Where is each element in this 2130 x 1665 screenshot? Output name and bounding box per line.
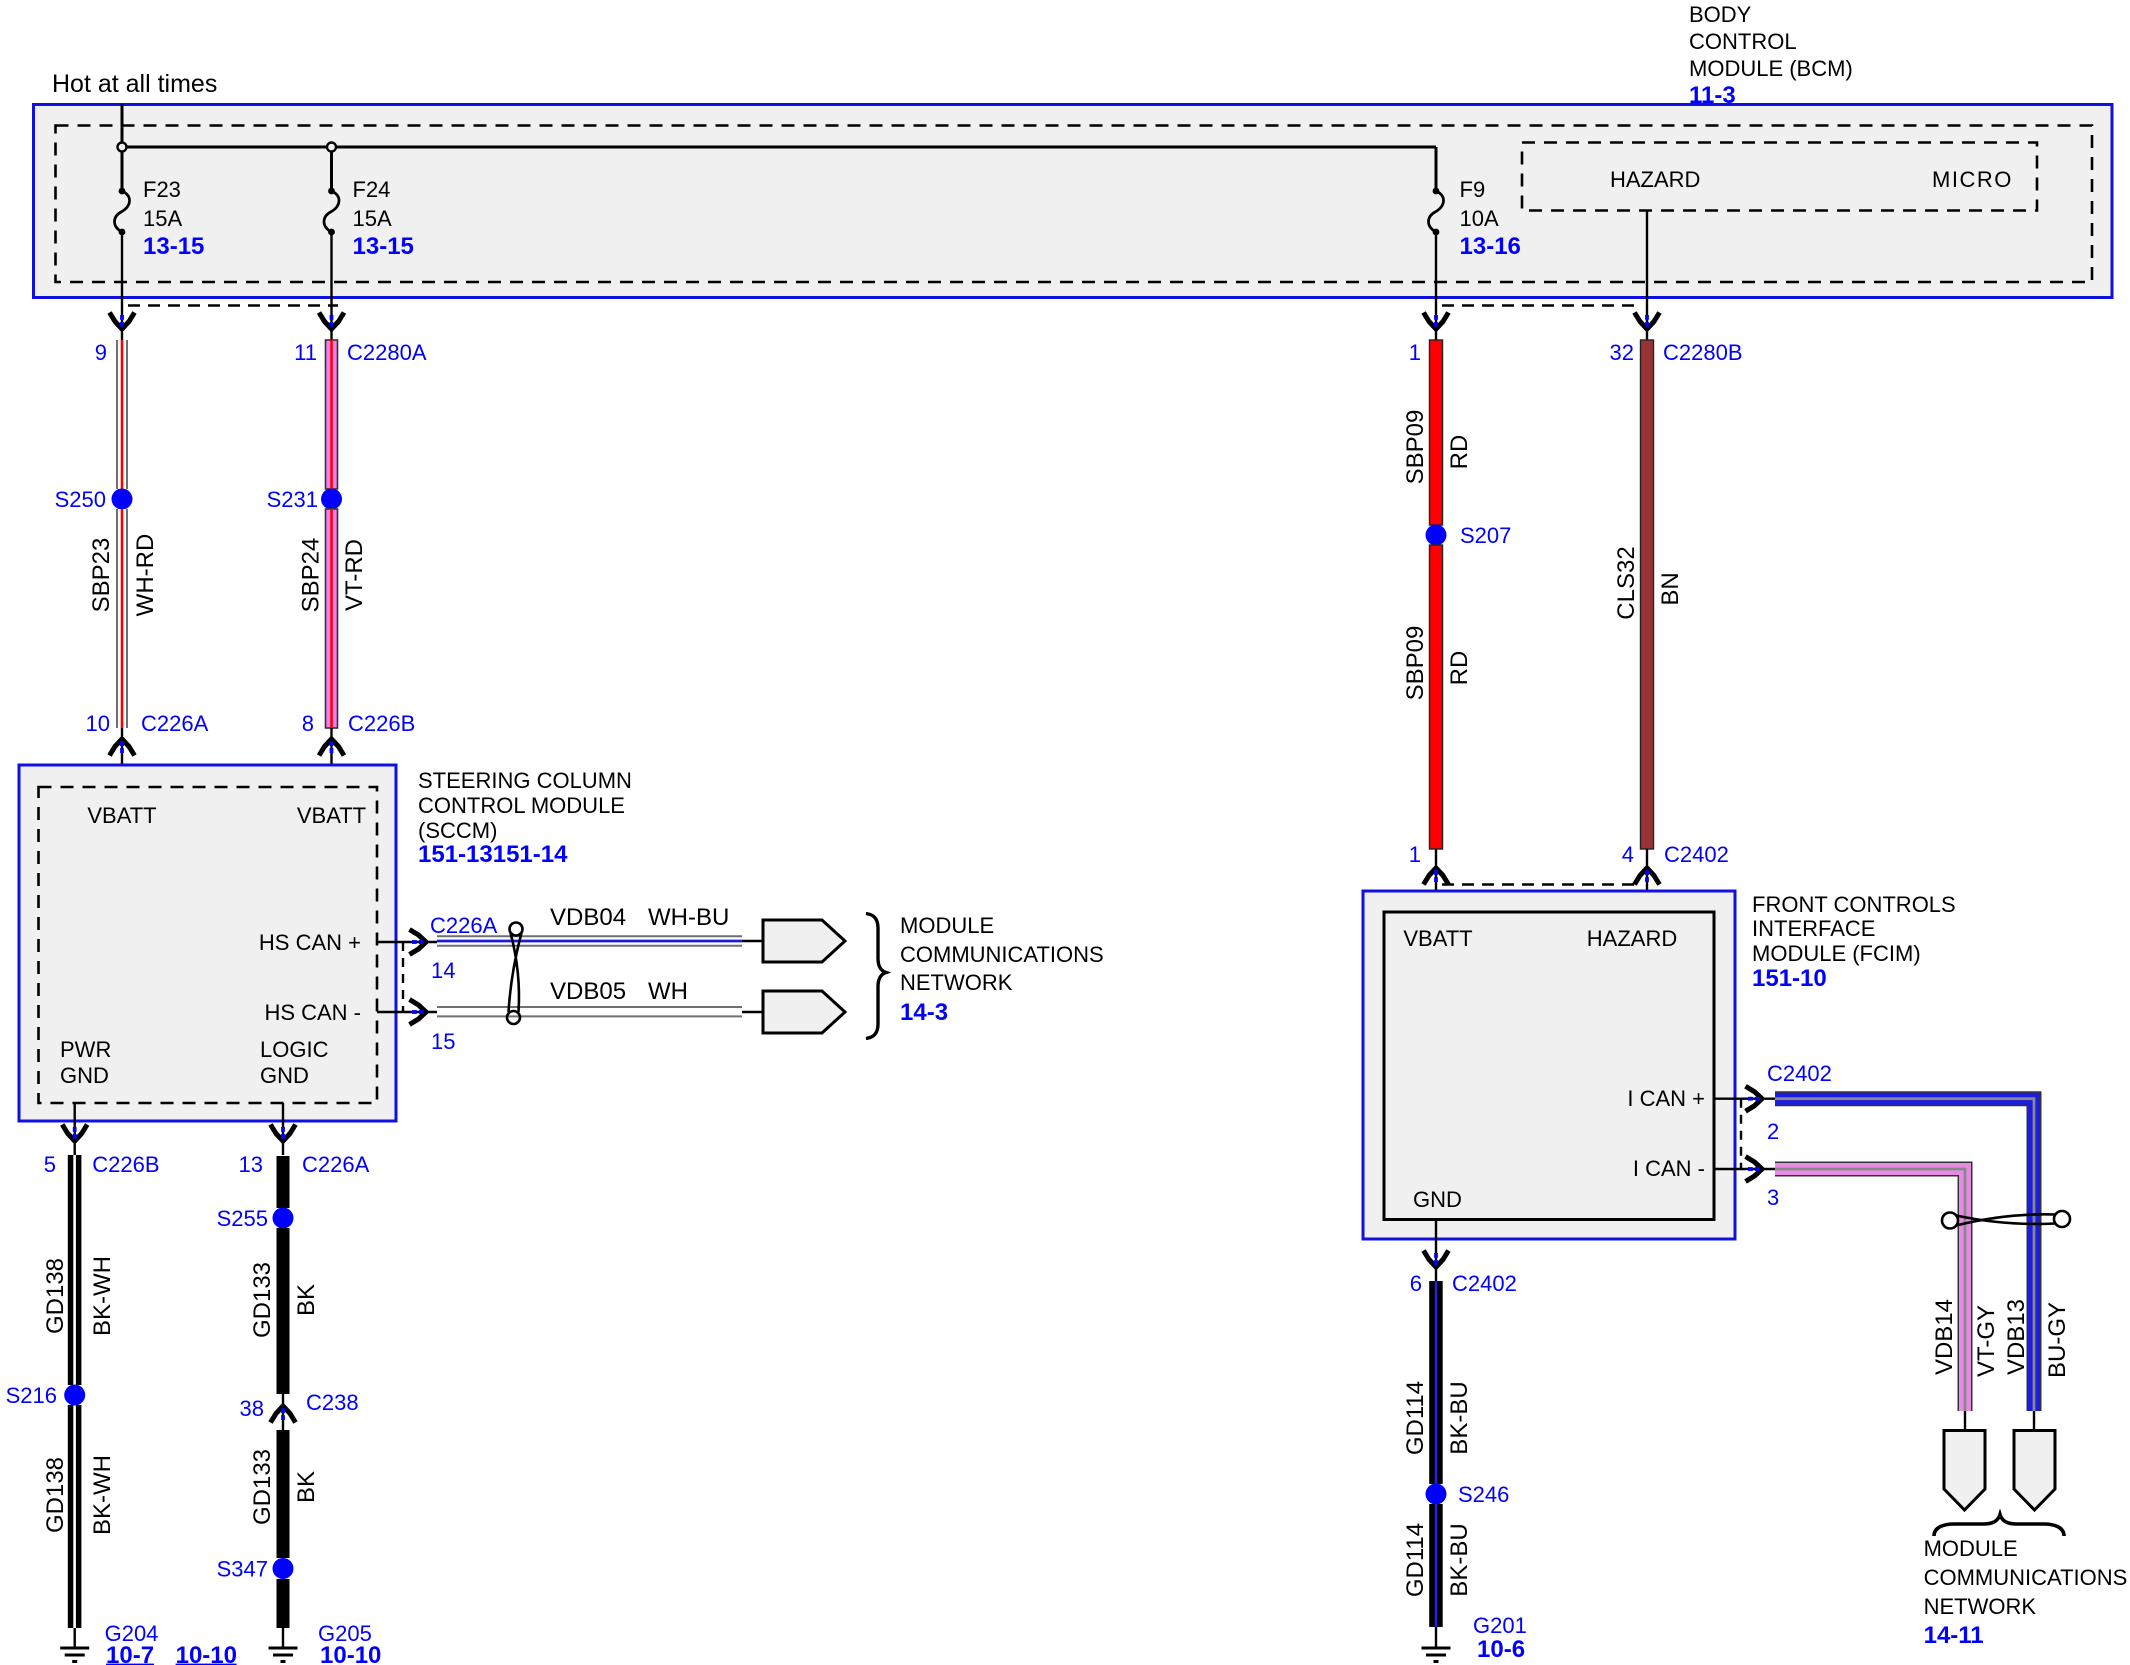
svg-text:14-11: 14-11 — [1924, 1622, 1984, 1649]
svg-text:BK-BU: BK-BU — [1446, 1381, 1473, 1454]
svg-text:CLS32: CLS32 — [1613, 546, 1640, 619]
wire SBP23 WH-RD (lower segment) — [116, 509, 128, 728]
module FCIM (outer box) — [1363, 891, 1735, 1239]
svg-text:BU-GY: BU-GY — [2044, 1302, 2071, 1378]
connector pin arrow (down) at C2280B pin 1 — [1424, 313, 1449, 330]
svg-text:GD114: GD114 — [1402, 1381, 1429, 1455]
connector C2402 dashed link — [1740, 1099, 1742, 1169]
wire into FCIM HAZARD — [1646, 849, 1648, 912]
connector pin arrow (up) at C226B pin 8 — [319, 739, 344, 756]
svg-text:3: 3 — [1767, 1185, 1779, 1210]
BCM internal dashed box (HAZARD / MICRO) — [1522, 143, 2037, 211]
svg-text:INTERFACE: INTERFACE — [1752, 916, 1875, 941]
wire SBP23 WH-RD (upper segment) — [116, 340, 128, 489]
svg-text:S347: S347 — [217, 1557, 268, 1582]
svg-text:BODY: BODY — [1689, 2, 1752, 27]
wire: F9 out of box — [1435, 231, 1437, 340]
splice S246 — [1426, 1484, 1447, 1505]
connector pin arrow (right) at C2402 pin 3 — [1746, 1157, 1763, 1182]
svg-text:15: 15 — [431, 1029, 455, 1054]
wire GD138 BK-WH (upper segment) — [68, 1155, 82, 1385]
wire GND pin out of FCIM — [1435, 1220, 1437, 1282]
wire GD133 BK (segment 1) — [277, 1156, 290, 1208]
svg-text:C226B: C226B — [92, 1152, 159, 1177]
svg-text:VT-GY: VT-GY — [1973, 1305, 2000, 1377]
svg-text:MODULE: MODULE — [900, 913, 994, 938]
svg-text:RD: RD — [1446, 435, 1473, 470]
svg-text:10: 10 — [86, 711, 110, 736]
svg-text:15A: 15A — [353, 206, 392, 231]
ground G204 — [60, 1628, 89, 1662]
svg-text:C2402: C2402 — [1452, 1271, 1517, 1296]
svg-text:SBP23: SBP23 — [88, 538, 115, 613]
wire GD138 BK-WH (lower segment) — [68, 1405, 82, 1628]
ground G201 — [1422, 1627, 1451, 1662]
connector pin arrow (down) at C2280B pin 32 — [1635, 313, 1660, 330]
svg-text:MICRO: MICRO — [1932, 167, 2013, 192]
svg-text:WH: WH — [648, 978, 688, 1005]
svg-text:C238: C238 — [306, 1390, 359, 1415]
svg-text:BK-BU: BK-BU — [1446, 1523, 1473, 1596]
brace — [1934, 1515, 2064, 1537]
svg-text:11: 11 — [294, 340, 317, 365]
splice S207 — [1426, 525, 1447, 546]
connector pin arrow (right) at C226A pin 14 — [410, 930, 427, 955]
svg-text:I CAN -: I CAN - — [1633, 1156, 1705, 1181]
module SCCM (outer box) — [19, 765, 396, 1121]
svg-text:HS CAN -: HS CAN - — [264, 1000, 361, 1025]
fuse F9 — [1429, 188, 1444, 236]
svg-text:32: 32 — [1610, 340, 1634, 365]
svg-text:10-7: 10-7 — [106, 1642, 154, 1665]
svg-text:10A: 10A — [1460, 206, 1499, 231]
svg-text:4: 4 — [1622, 842, 1634, 867]
splice S255 — [273, 1208, 294, 1229]
splice S347 — [273, 1558, 294, 1579]
connector C2402 dashed link — [1442, 883, 1642, 885]
wire VDB05 WH — [437, 1007, 742, 1016]
svg-text:13: 13 — [239, 1152, 263, 1177]
wire: F24 out of box — [330, 231, 332, 340]
svg-text:VDB04: VDB04 — [550, 904, 626, 931]
svg-text:GD133: GD133 — [249, 1262, 276, 1338]
svg-text:13-15: 13-15 — [353, 233, 414, 260]
connector pin arrow (down) at C2280A pin 11 — [319, 313, 344, 330]
wire SBP09 RD (lower segment) — [1430, 545, 1443, 849]
svg-text:BK-WH: BK-WH — [89, 1455, 116, 1535]
svg-text:S231: S231 — [267, 487, 318, 512]
svg-text:C2280A: C2280A — [347, 340, 427, 365]
wire: F23 out of box — [121, 231, 123, 340]
battery junction box inner dashed border — [56, 126, 2093, 283]
svg-text:CONTROL MODULE: CONTROL MODULE — [418, 793, 625, 818]
network connector terminal (VDB04) — [763, 920, 845, 962]
wire GD133 BK (segment 4) — [277, 1579, 290, 1628]
svg-text:BN: BN — [1657, 572, 1684, 605]
node: bus tap F23 — [118, 143, 127, 152]
svg-text:FRONT CONTROLS: FRONT CONTROLS — [1752, 892, 1956, 917]
svg-text:MODULE: MODULE — [1924, 1536, 2018, 1561]
svg-text:6: 6 — [1410, 1271, 1422, 1296]
svg-text:14: 14 — [431, 958, 455, 983]
svg-text:HAZARD: HAZARD — [1610, 167, 1700, 192]
svg-text:15A: 15A — [143, 206, 182, 231]
svg-text:GD114: GD114 — [1402, 1523, 1429, 1597]
wire I CAN - pin stub — [1714, 1168, 1775, 1170]
svg-text:SBP24: SBP24 — [298, 538, 325, 613]
svg-text:C226A: C226A — [430, 913, 498, 938]
connector C226A dashed link — [402, 942, 404, 1012]
svg-text:9: 9 — [95, 340, 107, 365]
wire stub to network connector 1 — [742, 940, 763, 942]
connector pin arrow (right) at C226A pin 15 — [410, 1000, 427, 1025]
wire HS CAN + pin stub — [377, 941, 437, 943]
node: bus tap F24 — [327, 143, 336, 152]
svg-text:LOGIC: LOGIC — [260, 1037, 329, 1062]
svg-text:1: 1 — [1409, 842, 1421, 867]
wire stub to network connector (VDB13) — [2033, 1411, 2035, 1431]
fuse F24 — [324, 188, 339, 236]
svg-text:WH-RD: WH-RD — [132, 534, 159, 617]
splice S216 — [64, 1385, 85, 1406]
splice S231 — [321, 489, 342, 510]
connector pin arrow (down) at C2280A pin 9 — [110, 313, 135, 330]
svg-text:C226B: C226B — [348, 711, 415, 736]
svg-text:VDB14: VDB14 — [1931, 1299, 1958, 1375]
svg-text:SBP09: SBP09 — [1402, 626, 1429, 701]
svg-text:F23: F23 — [143, 177, 181, 202]
svg-text:C226A: C226A — [141, 711, 209, 736]
network connector terminal (VDB13) — [2014, 1431, 2055, 1511]
svg-text:COMMUNICATIONS: COMMUNICATIONS — [1924, 1565, 2128, 1590]
svg-text:5: 5 — [44, 1152, 56, 1177]
wire into SCCM pin 8 — [330, 728, 332, 787]
wire SBP24 VT-RD (upper segment) — [326, 340, 338, 489]
svg-text:VBATT: VBATT — [297, 803, 366, 828]
connector C2280B dashed link — [1442, 304, 1642, 306]
connector pin arrow (down) at C226A pin 13 — [271, 1125, 296, 1142]
svg-text:10-10: 10-10 — [176, 1642, 237, 1665]
wire I CAN + pin stub — [1714, 1097, 1775, 1099]
battery junction box (outer) — [34, 105, 2113, 298]
wire SBP09 RD (upper segment) — [1430, 340, 1443, 525]
wire into FCIM VBATT — [1435, 849, 1437, 912]
svg-text:C2280B: C2280B — [1663, 340, 1743, 365]
svg-text:GD138: GD138 — [42, 1258, 69, 1334]
svg-text:HS CAN +: HS CAN + — [259, 930, 361, 955]
connector pin arrow (up) at C238 pin 38 — [271, 1406, 296, 1423]
module FCIM inner border — [1384, 912, 1714, 1220]
svg-text:I CAN +: I CAN + — [1627, 1086, 1705, 1111]
svg-text:NETWORK: NETWORK — [900, 970, 1013, 995]
connector pin arrow (up) at C226A pin 10 — [110, 739, 135, 756]
svg-text:PWR: PWR — [60, 1037, 111, 1062]
splice S250 — [112, 489, 133, 510]
svg-text:BK-WH: BK-WH — [89, 1256, 116, 1336]
brace — [866, 914, 886, 1039]
wire VDB04 WH-BU — [437, 936, 742, 945]
svg-text:GD133: GD133 — [249, 1449, 276, 1525]
svg-text:11-3: 11-3 — [1689, 82, 1736, 109]
wire: feed into F23 — [121, 105, 124, 191]
svg-text:RD: RD — [1446, 651, 1473, 686]
svg-text:151-13151-14: 151-13151-14 — [418, 841, 568, 868]
svg-text:C2402: C2402 — [1767, 1061, 1832, 1086]
svg-text:MODULE (FCIM): MODULE (FCIM) — [1752, 941, 1921, 966]
module SCCM inner dashed border — [39, 787, 378, 1103]
svg-text:C2402: C2402 — [1664, 842, 1729, 867]
connector pin arrow (down) at C226B pin 5 — [62, 1125, 87, 1142]
svg-text:MODULE (BCM): MODULE (BCM) — [1689, 56, 1853, 81]
svg-text:WH-BU: WH-BU — [648, 904, 729, 931]
svg-text:10-10: 10-10 — [320, 1642, 381, 1665]
fuse F23 — [115, 188, 130, 236]
wire GD133 BK (segment 2) — [277, 1228, 290, 1394]
wire CLS32 BN — [1641, 340, 1654, 849]
svg-text:S255: S255 — [217, 1206, 268, 1231]
twisted pair symbol — [507, 923, 523, 1025]
svg-text:CONTROL: CONTROL — [1689, 29, 1797, 54]
svg-text:(SCCM): (SCCM) — [418, 818, 497, 843]
svg-text:SBP09: SBP09 — [1402, 410, 1429, 485]
wire stub to network connector (VDB14) — [1964, 1411, 1966, 1431]
svg-text:GND: GND — [1413, 1187, 1462, 1212]
wire SBP24 VT-RD (lower segment) — [326, 509, 338, 728]
wire: HAZARD out of BCM — [1646, 211, 1648, 341]
wire through C238 — [282, 1394, 284, 1430]
svg-text:VBATT: VBATT — [87, 803, 156, 828]
wire HS CAN - pin stub — [377, 1011, 437, 1013]
svg-text:STEERING COLUMN: STEERING COLUMN — [418, 768, 632, 793]
network connector terminal (VDB05) — [763, 991, 845, 1033]
wire: bus to F9 — [1435, 147, 1438, 190]
ground G205 — [269, 1628, 298, 1662]
connector pin arrow (down) at C2402 pin 6 — [1424, 1251, 1449, 1268]
svg-text:S216: S216 — [6, 1383, 57, 1408]
wire GD114 BK-BU (lower segment) — [1429, 1504, 1443, 1627]
svg-text:S207: S207 — [1460, 523, 1511, 548]
wire PWR GND pin to below box — [73, 1103, 75, 1155]
svg-text:COMMUNICATIONS: COMMUNICATIONS — [900, 942, 1104, 967]
svg-text:GD138: GD138 — [42, 1457, 69, 1533]
svg-text:13-16: 13-16 — [1460, 233, 1521, 260]
svg-text:GND: GND — [260, 1063, 309, 1088]
svg-text:VT-RD: VT-RD — [341, 539, 368, 611]
connector pin arrow (right) at C2402 pin 2 — [1746, 1086, 1763, 1111]
svg-text:C226A: C226A — [302, 1152, 370, 1177]
connector pin arrow (up) at C2402 pin 4 — [1635, 868, 1660, 885]
network connector terminal (VDB14) — [1944, 1431, 1985, 1511]
svg-text:BK: BK — [293, 1471, 320, 1503]
svg-text:Hot at all times: Hot at all times — [52, 70, 217, 98]
svg-text:S250: S250 — [55, 487, 106, 512]
wire GD114 BK-BU (upper segment) — [1429, 1281, 1443, 1484]
svg-text:BK: BK — [293, 1284, 320, 1316]
wire: bus to F24 — [330, 152, 333, 191]
svg-text:GND: GND — [60, 1063, 109, 1088]
svg-text:HAZARD: HAZARD — [1587, 926, 1677, 951]
svg-text:38: 38 — [240, 1396, 264, 1421]
wire GD133 BK (segment 3) — [277, 1430, 290, 1558]
svg-text:VDB05: VDB05 — [550, 978, 626, 1005]
twisted pair symbol — [1942, 1211, 2070, 1229]
wire stub to network connector 2 — [742, 1011, 763, 1013]
svg-text:F24: F24 — [353, 177, 391, 202]
svg-text:F9: F9 — [1460, 177, 1486, 202]
wire VDB14 VT-GY (L-shape) — [1775, 1169, 1965, 1411]
svg-text:14-3: 14-3 — [900, 999, 948, 1026]
connector pin arrow (up) at C2402 pin 1 — [1424, 868, 1449, 885]
svg-text:G201: G201 — [1473, 1613, 1527, 1638]
svg-text:1: 1 — [1409, 340, 1421, 365]
svg-text:8: 8 — [302, 711, 314, 736]
svg-text:2: 2 — [1767, 1119, 1779, 1144]
svg-text:VDB13: VDB13 — [2003, 1299, 2030, 1375]
wire into SCCM pin 10 — [121, 728, 123, 787]
wire VDB13 BU-GY (L-shape) — [1775, 1099, 2034, 1411]
wire LOGIC GND pin to below box — [282, 1103, 284, 1155]
svg-text:151-10: 151-10 — [1752, 965, 1827, 992]
svg-text:S246: S246 — [1458, 1482, 1509, 1507]
connector C2280A dashed link — [128, 304, 338, 306]
svg-text:10-6: 10-6 — [1477, 1636, 1525, 1663]
svg-text:NETWORK: NETWORK — [1924, 1594, 2037, 1619]
svg-text:13-15: 13-15 — [143, 233, 204, 260]
svg-text:VBATT: VBATT — [1403, 926, 1472, 951]
bus wire — [122, 146, 1436, 149]
